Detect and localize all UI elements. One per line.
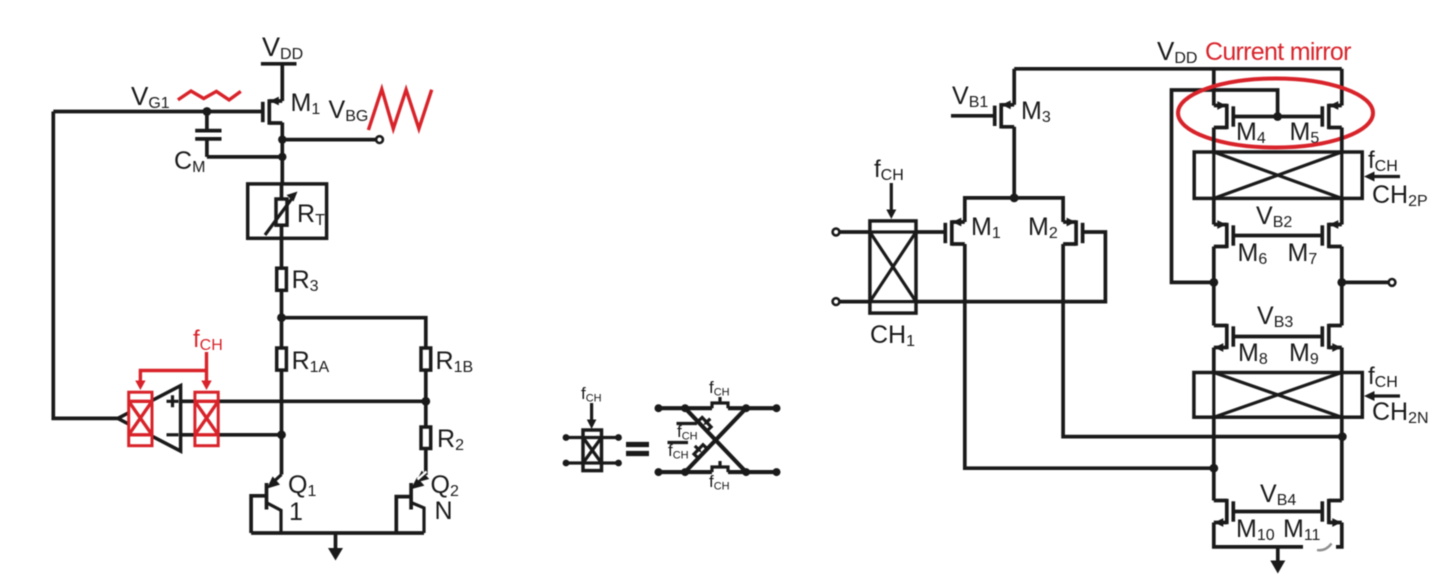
chopper box over op-amp input (left)	[129, 392, 152, 446]
legend bottom switch	[712, 461, 728, 472]
wire R3 to node A	[280, 290, 284, 317]
legend cross wire 2	[685, 408, 746, 472]
transistor M3 (PMOS)	[995, 100, 1015, 128]
ground rail (left circuit)	[251, 531, 424, 535]
wire op-amp output to feedback	[53, 112, 118, 419]
transistor M7 (cascode PMOS, mirrored)	[1322, 220, 1342, 248]
legend network bottom wire	[659, 470, 777, 474]
VDD rail	[1014, 67, 1342, 71]
wire M3 drain to tail node	[1012, 127, 1016, 198]
transistor M6 (cascode PMOS)	[1214, 220, 1234, 248]
node plus/R1B/R2 junction	[421, 397, 430, 406]
resistor R1B	[421, 348, 431, 370]
resistor RT body	[276, 199, 287, 225]
wire M7 source to CH2P	[1340, 198, 1344, 224]
wire plus node to R2	[424, 401, 428, 427]
chopper box at op-amp input (right)	[195, 392, 218, 446]
wire VDD to M1 source	[280, 64, 284, 101]
chopper CH2N box	[1194, 373, 1362, 418]
tail node junction	[1010, 194, 1019, 203]
legend switch on diagonal 2	[694, 445, 707, 459]
terminal VBG	[376, 136, 383, 143]
transistor M10 (NMOS mirror)	[1214, 499, 1234, 527]
legend cross wire 1	[685, 408, 746, 472]
wire M9 drain to output node	[1340, 282, 1344, 325]
resistor R3	[277, 268, 287, 290]
red ripple waveform at VG1	[178, 91, 241, 100]
transistor M1 (PMOS)	[263, 97, 283, 125]
ground symbol (left)	[334, 533, 338, 549]
wire VB3 gates	[1233, 335, 1322, 339]
clock arrow into CH2N	[1373, 394, 1400, 397]
node feedback to left rail	[1209, 278, 1218, 287]
CH1 input terminals	[839, 232, 870, 302]
transistor M11 (NMOS mirror, mirrored)	[1322, 499, 1342, 527]
arrow of variable resistor RT	[265, 197, 293, 235]
transistor Q1 (PNP)	[251, 435, 281, 533]
wire gate VG1	[53, 110, 263, 114]
node CM/drain junction	[278, 153, 286, 161]
transistor M9 (cascode NMOS, mirrored)	[1322, 324, 1342, 352]
wire VB1 gate	[951, 114, 995, 118]
transistor M1 (PMOS diff pair)	[945, 218, 965, 246]
wire M8 source to CH2N	[1212, 348, 1216, 373]
legend chopper box	[583, 430, 602, 471]
wire to output terminal	[1342, 281, 1389, 285]
wire M1 drain down	[965, 244, 1214, 468]
wire M1 drain down	[280, 123, 284, 185]
node M2-drain to right rail	[1338, 432, 1347, 441]
capacitor CM	[195, 112, 221, 157]
transistor M5 (PMOS mirror, mirrored)	[1322, 101, 1342, 129]
resistor R1A	[277, 348, 287, 370]
red clock wires to choppers	[140, 352, 206, 382]
transistor M4 (PMOS mirror)	[1214, 101, 1234, 129]
clock arrow into CH1	[890, 183, 893, 211]
legend switch on diagonal 1	[698, 418, 711, 432]
wire M6 source to CH2P	[1212, 198, 1216, 224]
wire CM to drain	[207, 155, 282, 159]
wire op-amp minus input	[181, 433, 282, 437]
wire VBG output	[282, 138, 376, 142]
wire VB2 gates	[1233, 234, 1322, 238]
wire op-amp plus input	[181, 399, 426, 403]
legend chopper terminals	[566, 438, 619, 464]
node VBG tap	[278, 135, 286, 143]
wire M6 drain to output node	[1212, 247, 1216, 283]
wire VB4 gates	[1233, 510, 1322, 514]
node A junction	[277, 313, 286, 322]
output terminal	[1389, 279, 1396, 286]
wire M8 drain to output node	[1212, 282, 1216, 325]
op-amp U1 triangle	[118, 386, 181, 452]
ground rail (right circuit)	[1214, 523, 1342, 547]
wire M2 gate loop	[916, 232, 1105, 302]
svg-text:N: N	[435, 497, 453, 525]
clock arrow into CH2P	[1373, 175, 1400, 178]
red triangle waveform at VBG	[368, 89, 431, 130]
wire R1B down to plus node	[424, 370, 428, 401]
wire M5 drain to CH2P	[1340, 128, 1344, 153]
VDD supply bar	[261, 62, 297, 66]
legend terminal dots	[655, 404, 663, 412]
wire M4 source to VDD	[1212, 69, 1216, 106]
red ellipse current mirror	[1178, 79, 1373, 148]
chopper CH2P box	[1194, 152, 1362, 198]
wire R1A down across plus-wire to minus node	[280, 370, 284, 435]
wire RT to R3	[280, 238, 284, 268]
legend network top wire	[659, 406, 777, 410]
wire M5 source to VDD	[1340, 69, 1344, 106]
svg-text:Current mirror: Current mirror	[1205, 38, 1351, 66]
node M1-drain to left rail	[1209, 464, 1218, 473]
resistor R2	[421, 427, 431, 449]
wire CH2N bottom-left rail down	[1212, 417, 1216, 500]
node right output	[1337, 278, 1346, 287]
wire M4/M5 gates	[1233, 115, 1322, 119]
op-amp minus sign	[167, 433, 179, 436]
legend junction dots	[681, 404, 689, 412]
chopper CH1 box	[870, 221, 916, 313]
clock arrow into legend chopper	[590, 403, 593, 421]
legend top switch	[712, 397, 728, 408]
node mirror gate	[1273, 112, 1282, 121]
node gate/CM junction	[203, 107, 212, 116]
transistor M8 (cascode NMOS)	[1214, 324, 1234, 352]
wire M2 drain down	[1063, 244, 1342, 437]
svg-text:1: 1	[289, 498, 303, 526]
transistor Q2 (PNP, area N)	[396, 471, 429, 533]
node minus/Q1 junction	[277, 430, 286, 439]
wire node A to R1B branch	[282, 318, 426, 348]
watermark remnant arc	[1317, 544, 1332, 551]
wire M1 gate to CH1	[916, 230, 945, 234]
wire gate to feedback	[1172, 90, 1278, 282]
wire M3 source to VDD	[1012, 69, 1016, 105]
transistor M2 (PMOS diff pair, mirrored)	[1063, 218, 1083, 246]
wire M9 source to CH2N	[1340, 348, 1344, 373]
ground symbol (right)	[1276, 547, 1280, 561]
resistor RT box	[248, 184, 327, 238]
tail bar wire	[965, 198, 1063, 222]
wire node A down to R1A	[280, 318, 284, 348]
op-amp plus sign	[167, 395, 179, 407]
wire CH2N bottom-right rail down	[1340, 417, 1344, 500]
equals sign	[626, 445, 649, 454]
wire M4 drain to CH2P	[1212, 128, 1216, 153]
wire R2 to Q2 emitter	[424, 449, 428, 476]
wire M7 drain to output node	[1340, 247, 1344, 283]
